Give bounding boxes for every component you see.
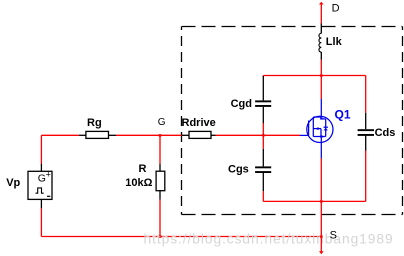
svg-text:Rdrive: Rdrive (182, 117, 216, 129)
svg-text:10kΩ: 10kΩ (125, 177, 152, 189)
svg-text:Cds: Cds (375, 127, 396, 139)
svg-text:Llk: Llk (326, 36, 343, 48)
svg-text:+: + (46, 170, 51, 180)
svg-text:G: G (158, 117, 166, 128)
svg-text:https://blog.csdn.net/tuxinban: https://blog.csdn.net/tuxinbang1989 (144, 232, 394, 247)
svg-text:Rg: Rg (87, 117, 102, 129)
svg-text:Cgs: Cgs (228, 163, 249, 175)
svg-text:D: D (332, 3, 340, 15)
svg-text:Cgd: Cgd (231, 98, 252, 110)
svg-text:S: S (330, 230, 337, 242)
svg-text:Q1: Q1 (335, 108, 351, 122)
svg-text:Vp: Vp (6, 177, 20, 189)
svg-text:R: R (139, 163, 147, 175)
